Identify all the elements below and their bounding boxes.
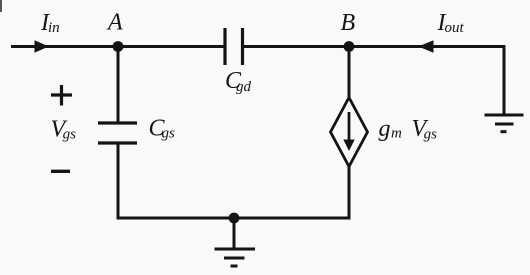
wire: capacitor Cgs down to bottom rail [117, 143, 120, 220]
arrow: Iout current direction (points left) [418, 40, 433, 52]
scan artifact left edge [0, 0, 2, 12]
wire: input lead from left edge to capacitor Cgd left plate, through node A [11, 45, 224, 48]
node A [113, 41, 124, 52]
wire: stub from junction to ground [233, 218, 236, 248]
wire: node A down to capacitor Cgs [117, 47, 120, 124]
wire: capacitor Cgd right plate to right corner, through node B [243, 45, 506, 48]
wire: node B down to current source [348, 47, 351, 100]
wire: current source down to bottom rail [348, 166, 351, 220]
capacitor Cgs [98, 123, 137, 143]
arrow: Iin current direction (points right) [35, 40, 49, 52]
node B [344, 41, 355, 52]
arrow inside current source (points down) [343, 112, 354, 151]
ground (top right) [485, 115, 524, 132]
dependent current source gmVgs (diamond) [331, 98, 368, 167]
minus sign (Vgs polarity) [51, 170, 70, 173]
wire: right vertical drop to ground [503, 47, 506, 115]
plus sign (Vgs polarity) [51, 85, 72, 106]
capacitor Cgd [225, 28, 243, 65]
junction node on bottom rail [229, 213, 240, 224]
ground (bottom) [215, 249, 256, 266]
svg-text:B: B [341, 10, 356, 36]
wire: bottom rail [117, 217, 351, 220]
svg-text:A: A [106, 10, 123, 36]
